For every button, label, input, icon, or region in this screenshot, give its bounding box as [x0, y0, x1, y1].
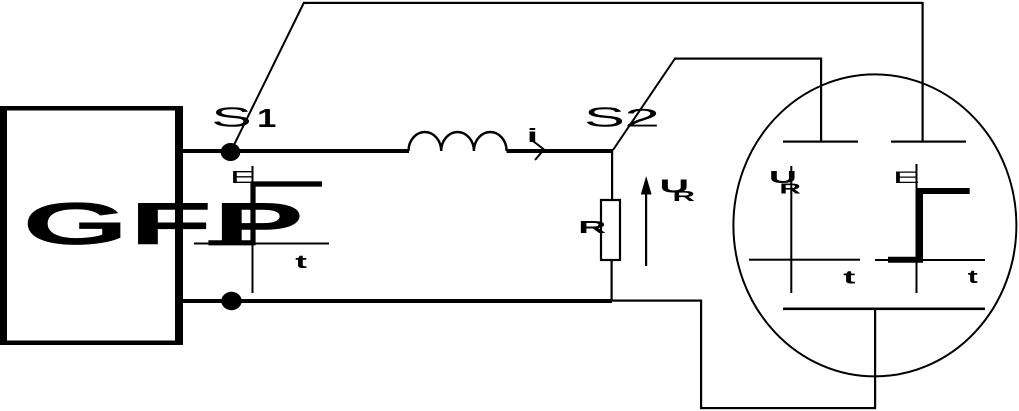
scope graph UR: label R subscript — [779, 181, 801, 198]
scope bottom electrode line — [783, 308, 985, 311]
scope graph E: axis horizontal — [875, 259, 985, 261]
label U (near arrow) — [660, 175, 690, 196]
label S2 letter S — [584, 103, 625, 133]
svg-text:t: t — [968, 267, 979, 288]
label R subscript (near arrow) — [673, 188, 696, 205]
deflection plate left — [783, 141, 858, 143]
current arrow chevron — [533, 141, 544, 160]
scope graph E: step waveform — [888, 191, 970, 260]
svg-text:R: R — [578, 218, 606, 237]
svg-text:R: R — [779, 181, 801, 198]
scope graph UR: label U — [769, 168, 797, 187]
deflection plate right — [891, 141, 966, 143]
svg-text:GFP: GFP — [22, 190, 304, 257]
wire S2 to resistor — [611, 150, 613, 199]
wire resistor to bottom — [611, 260, 613, 300]
svg-text:S: S — [211, 102, 252, 133]
wire bottom thin to corner — [612, 300, 702, 302]
label S2 digit 2 — [624, 104, 660, 132]
left mini graph: t axis horizontal — [194, 243, 329, 245]
svg-text:1: 1 — [257, 104, 276, 133]
svg-text:t: t — [295, 251, 307, 272]
switch S1 blade — [232, 3, 304, 150]
wire corner vertical down — [700, 300, 702, 408]
wire vertical up into scope — [874, 308, 876, 409]
wire top (inductor to S2) — [507, 149, 614, 153]
voltage arrow UR — [641, 176, 652, 266]
svg-text:R: R — [673, 188, 696, 205]
label S1 digit 1 — [257, 104, 276, 133]
node S1 — [221, 143, 241, 161]
scope graph UR: axis vertical — [790, 166, 792, 293]
label R — [578, 218, 606, 237]
left mini graph: E axis vertical — [252, 166, 254, 293]
wire bottom horizontal to scope — [700, 407, 876, 409]
label i — [527, 124, 538, 146]
scope graph E: axis vertical — [916, 164, 918, 293]
inductor L — [409, 132, 507, 151]
label S1 letter S — [211, 102, 252, 133]
svg-text:S: S — [584, 103, 625, 133]
left mini graph: label E — [230, 168, 256, 187]
wire top (source to inductor) — [183, 149, 409, 153]
signal generator box — [0, 106, 183, 345]
left mini graph: label t — [295, 251, 307, 272]
scope graph UR: label t — [843, 267, 856, 288]
scope graph E: label t — [968, 267, 979, 288]
resistor R body — [601, 200, 620, 260]
label GFP — [22, 190, 304, 257]
wire vertical to right plate — [922, 2, 924, 141]
wire top-most horizontal — [303, 2, 923, 4]
svg-text:t: t — [843, 267, 856, 288]
node bottom terminal — [221, 292, 241, 310]
wire vertical to left plate — [820, 58, 822, 141]
left mini graph: step waveform — [208, 184, 322, 243]
switch S2 blade — [613, 59, 675, 151]
wire S2 horizontal to left plate — [674, 58, 822, 60]
wire bottom (source to resistor) — [183, 299, 612, 303]
scope graph UR: axis horizontal — [749, 259, 860, 261]
svg-text:2: 2 — [624, 104, 660, 132]
svg-text:E: E — [893, 168, 920, 187]
scope graph E: label E — [893, 168, 920, 187]
oscilloscope screen ellipse — [733, 74, 1016, 376]
